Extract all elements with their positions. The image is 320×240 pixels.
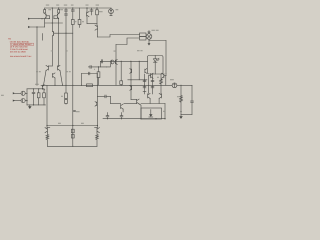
node dot col116 xyxy=(115,61,116,62)
capacitor C1 xyxy=(65,8,68,14)
wire bottom rail xyxy=(103,118,165,120)
wire zobel right down xyxy=(191,85,193,101)
wire mid cluster rail xyxy=(41,84,172,86)
resistor R10 xyxy=(65,85,68,98)
resistor R2 xyxy=(58,8,60,13)
node dot bottom b xyxy=(155,118,156,119)
wire node rail mid xyxy=(100,60,147,62)
node dot bias a xyxy=(130,79,131,80)
wire stub label leader xyxy=(42,33,44,40)
wire output bottom rail xyxy=(47,145,97,147)
svg-text:see annex board 2 rev: see annex board 2 rev xyxy=(10,55,32,58)
current source I2 xyxy=(172,83,177,88)
LED box U1 xyxy=(148,56,164,75)
capacitor C12 xyxy=(120,113,123,120)
capacitor C9 fb xyxy=(89,72,90,75)
diode stack D1 xyxy=(143,74,146,94)
wire bias drop xyxy=(138,61,140,80)
wire fb left xyxy=(81,74,83,86)
resistor R9 zobel xyxy=(180,85,183,114)
resistor R7 fb xyxy=(87,84,93,87)
wire right col down xyxy=(165,41,167,74)
resistor R1 xyxy=(44,8,46,13)
resistor R5 xyxy=(96,8,99,26)
transistor Q20 output left xyxy=(45,127,50,132)
node dot rail mid d xyxy=(130,61,131,62)
transistor Q5 xyxy=(52,31,73,36)
node dot out rail m xyxy=(72,125,73,126)
resistor R3 xyxy=(71,20,74,147)
resistor R6 xyxy=(97,67,100,85)
node dot rail mid c xyxy=(121,61,122,62)
node dot rail3 right xyxy=(144,85,145,86)
transistor Q15 xyxy=(162,73,167,85)
node dot col121 xyxy=(121,85,122,86)
node dot bl c xyxy=(33,104,34,105)
wire vas to relay upper xyxy=(97,35,139,38)
node dot out rail r xyxy=(97,125,98,126)
wire lamp right xyxy=(149,40,166,42)
transistor Q8 mid cluster center xyxy=(53,73,55,85)
wire column B from rail xyxy=(51,8,53,31)
node dot bottom a xyxy=(140,118,141,119)
capacitor C11 xyxy=(106,113,109,120)
node dot cluster d xyxy=(65,85,66,86)
node dot jack join xyxy=(26,100,27,101)
ground zobel xyxy=(180,115,182,119)
wire left col down xyxy=(46,85,48,128)
resistor R8 xyxy=(160,74,163,94)
wire col 131 down xyxy=(130,61,132,99)
wire top supply rail xyxy=(45,7,111,9)
ground bl xyxy=(29,105,31,109)
red annotation text block xyxy=(8,37,33,58)
node dot rail mid e xyxy=(139,61,140,62)
capacitor C14 xyxy=(32,89,35,105)
capacitor C10 zobel xyxy=(191,101,194,115)
node dot bottom c xyxy=(164,118,165,119)
wire bias string xyxy=(128,79,147,81)
node dot cluster c xyxy=(62,85,63,86)
wire relay lower step xyxy=(116,38,140,45)
wire right output column xyxy=(96,85,98,125)
capacitor C2 xyxy=(65,14,68,85)
wire fb block top xyxy=(82,73,98,75)
resistor R14 xyxy=(71,134,74,138)
transistor Q1 xyxy=(45,13,50,18)
capacitor C15 sense xyxy=(74,110,76,111)
transistor Q13b xyxy=(130,86,132,91)
wire fb right xyxy=(96,74,98,86)
capacitor C8 horizontal xyxy=(88,64,110,68)
wire long vertical A xyxy=(36,27,38,85)
transistor Q9 feedback xyxy=(42,85,44,90)
transistor Q12 vas xyxy=(115,59,117,64)
transistor Q11 vas circle xyxy=(110,60,114,64)
capacitor C6 series xyxy=(101,60,102,63)
transistor Q3 xyxy=(87,8,89,24)
node dot cluster b xyxy=(54,85,55,86)
wire output top rail xyxy=(47,125,97,127)
wire feedback line xyxy=(27,88,44,90)
node dot bias b xyxy=(144,79,145,80)
resistor R18 xyxy=(43,89,46,105)
node dot input2 junction xyxy=(36,26,37,27)
transistor Q2 xyxy=(54,13,59,23)
current source I1 xyxy=(109,8,114,16)
input jack Q23 xyxy=(13,99,27,103)
lamp DS1 xyxy=(146,31,152,39)
diode stack D2 xyxy=(151,74,154,94)
node dot cluster a xyxy=(43,85,44,86)
svg-text:trim the dc offset: trim the dc offset xyxy=(10,51,26,54)
node dot rail E xyxy=(96,7,97,8)
node dot zobel b xyxy=(180,111,181,112)
resistor R13 xyxy=(71,129,74,133)
transistor Q16 xyxy=(148,85,150,103)
wire step to rail xyxy=(115,45,117,62)
node dot fb line b xyxy=(38,88,39,89)
node dot cluster e xyxy=(72,85,73,86)
wire col 116 down xyxy=(115,61,117,85)
node dot rail D xyxy=(86,7,87,8)
transistor Qc xyxy=(145,69,147,74)
node dot fb a xyxy=(81,85,82,86)
wire jack down corner xyxy=(26,93,28,105)
node dot out rail l xyxy=(46,125,47,126)
wire long vertical B xyxy=(51,36,53,66)
wire emitter L path xyxy=(45,19,63,23)
resistor R12 xyxy=(96,132,99,146)
node dot fb line a xyxy=(33,88,34,89)
transistor Q17 xyxy=(159,93,161,103)
wire mirror link xyxy=(87,23,97,25)
resistor R11 xyxy=(46,132,49,146)
gray value labels xyxy=(1,5,179,124)
wire input line 2 xyxy=(28,23,44,28)
node dot out bottom xyxy=(72,146,73,147)
capacitor C4 xyxy=(90,8,93,15)
capacitor C13 xyxy=(97,95,110,104)
resistor R4 xyxy=(78,8,81,28)
wire col 165 xyxy=(164,104,166,119)
node dot cdom xyxy=(98,66,99,67)
transistor Q13a xyxy=(130,69,132,74)
resistor R15 xyxy=(37,89,40,105)
wire long vertical C xyxy=(58,23,60,66)
node dot fb b xyxy=(97,85,98,86)
speaker box LS1 xyxy=(141,108,162,119)
wire driver out xyxy=(141,103,165,105)
capacitor C3 xyxy=(71,8,74,20)
transistor Q18 xyxy=(111,104,124,113)
wire input line 1 xyxy=(28,18,49,19)
transistor Q6 mid cluster left xyxy=(44,65,53,85)
transistor Q24 xyxy=(95,102,97,107)
connector block J1 xyxy=(140,33,147,40)
resistor R16 xyxy=(65,99,68,105)
node dot vas link xyxy=(65,33,66,34)
node dot rail C xyxy=(72,7,73,8)
wire rail stub xyxy=(99,61,101,67)
wire q19 down xyxy=(139,104,141,119)
node dot zobel xyxy=(180,85,181,86)
node dot rail B xyxy=(52,7,53,8)
node dot L join xyxy=(52,22,53,23)
wire right rail b xyxy=(177,84,192,86)
node dot rail R2 xyxy=(58,7,59,8)
ground lamp xyxy=(148,39,150,45)
transistor Q7 mid cluster right xyxy=(58,65,63,85)
transistor Q14 xyxy=(149,73,154,85)
wire bl bottom xyxy=(27,104,46,106)
transistor Q4 xyxy=(95,25,97,37)
transistor Q19 xyxy=(124,99,139,104)
wire zobel bottom xyxy=(181,114,192,116)
resistor R17 col xyxy=(120,61,122,81)
input jack Q22 xyxy=(13,91,27,95)
node dot input1 junction xyxy=(41,18,42,19)
transistor Q21 output right xyxy=(95,126,100,133)
wire jack up corner xyxy=(26,89,28,94)
